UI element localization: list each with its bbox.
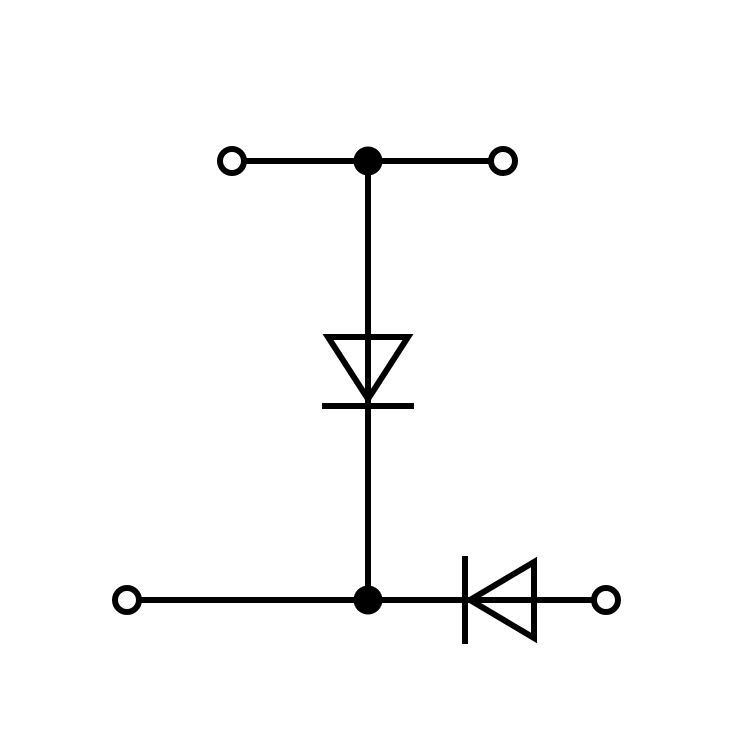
junction node bottom xyxy=(354,586,383,615)
terminal circle bottom-right xyxy=(594,588,618,612)
wire bottom rail xyxy=(140,597,593,603)
junction node top xyxy=(354,147,383,176)
diode D1 (cathode down) triangle xyxy=(328,337,408,399)
wire vertical center xyxy=(365,161,371,601)
wire top rail xyxy=(244,158,492,164)
diode D2 (cathode left) triangle xyxy=(470,562,534,638)
diode D2 cathode bar xyxy=(462,556,468,644)
terminal circle top-left xyxy=(220,149,244,173)
diode D1 cathode bar xyxy=(322,403,414,409)
terminal circle top-right xyxy=(491,149,515,173)
terminal circle bottom-left xyxy=(115,588,139,612)
